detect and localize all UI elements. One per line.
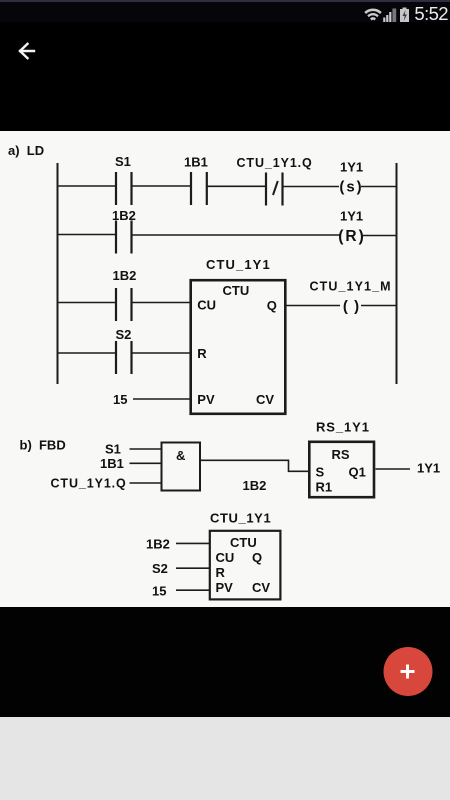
wire rung1 d — [361, 186, 397, 188]
svg-text:Q: Q — [252, 550, 262, 565]
status bar — [0, 0, 450, 22]
svg-text:b) FBD: b) FBD — [20, 438, 66, 453]
contact CTU_1Y1.Q (NC) — [266, 173, 283, 206]
RS block RS_1Y1 — [309, 420, 374, 498]
svg-text:1B1: 1B1 — [184, 155, 208, 170]
counter block CTU_1Y1 (LD) — [191, 257, 286, 414]
svg-text:CV: CV — [252, 580, 270, 595]
back arrow — [20, 44, 34, 58]
svg-text:R1: R1 — [316, 480, 333, 495]
svg-text:CTU_1Y1_M: CTU_1Y1_M — [310, 280, 392, 294]
wifi icon — [362, 10, 384, 32]
contact 1B2 rung3 — [116, 288, 132, 321]
wire AND output — [201, 460, 309, 471]
svg-text:RS: RS — [332, 447, 350, 462]
contact 1B2 rung2 — [116, 221, 132, 254]
svg-text:15: 15 — [113, 392, 127, 407]
svg-text:1B2: 1B2 — [243, 478, 267, 493]
app bar — [0, 22, 450, 131]
wire 1B1 to AND — [130, 462, 162, 464]
svg-text:15: 15 — [152, 584, 166, 599]
svg-text:CU: CU — [216, 550, 235, 565]
wire coil to rail — [361, 305, 397, 307]
svg-text:CTU_1Y1: CTU_1Y1 — [210, 511, 271, 526]
wire 15 to PV — [176, 589, 209, 591]
svg-text:CTU: CTU — [230, 535, 257, 550]
wire rung4 a — [132, 352, 192, 354]
wire rung3 left — [57, 302, 116, 304]
svg-text:S2: S2 — [152, 561, 168, 576]
wire rung2 b — [362, 235, 397, 237]
svg-text:( ): ( ) — [343, 298, 360, 315]
svg-text:a) LD: a) LD — [8, 143, 44, 158]
svg-text:S2: S2 — [116, 327, 132, 342]
svg-text:R: R — [216, 565, 226, 580]
battery icon — [400, 8, 409, 23]
right power rail — [396, 163, 398, 384]
svg-text:PV: PV — [197, 392, 215, 407]
svg-text:RS_1Y1: RS_1Y1 — [316, 420, 370, 435]
left power rail — [57, 163, 59, 384]
contact S1 — [116, 172, 132, 205]
svg-text:Q: Q — [267, 298, 277, 313]
svg-text:CTU_1Y1: CTU_1Y1 — [206, 257, 271, 272]
FAB button — [384, 647, 433, 696]
wire 1B2 to CU — [176, 542, 209, 544]
svg-text:1Y1: 1Y1 — [417, 461, 440, 476]
wire rung4 left — [57, 352, 116, 354]
svg-text:S1: S1 — [115, 154, 131, 169]
svg-text:1Y1: 1Y1 — [340, 160, 363, 175]
svg-text:&: & — [176, 448, 185, 463]
svg-text:CTU_1Y1.Q: CTU_1Y1.Q — [51, 477, 127, 491]
wire rung1 c — [283, 186, 340, 188]
svg-text:1B1: 1B1 — [100, 456, 124, 471]
wire rung1 a — [132, 185, 192, 187]
wire Q1 output — [376, 468, 411, 470]
svg-text:CV: CV — [256, 392, 274, 407]
signal icon — [383, 9, 396, 23]
svg-text:S1: S1 — [105, 442, 121, 457]
svg-text:1B2: 1B2 — [113, 268, 137, 283]
counter block CTU (FBD) — [210, 531, 281, 600]
svg-text:CU: CU — [197, 298, 216, 313]
svg-text:CTU_1Y1.Q: CTU_1Y1.Q — [237, 156, 313, 170]
svg-text:R: R — [197, 346, 207, 361]
diagram content — [0, 131, 450, 607]
svg-text:(R): (R) — [338, 228, 366, 245]
wire Q to AND — [130, 482, 162, 484]
bottom black panel — [0, 607, 450, 717]
wire rung3 a — [132, 302, 192, 304]
svg-text:S: S — [316, 465, 325, 480]
wire rung1 b — [207, 185, 266, 187]
clock 5:52 — [414, 3, 448, 25]
wire PV input — [133, 398, 191, 400]
svg-text:1B2: 1B2 — [146, 537, 170, 552]
contact S2 — [116, 341, 132, 374]
bottom gray panel — [0, 717, 450, 800]
svg-text:PV: PV — [216, 580, 234, 595]
wire Q output — [286, 305, 340, 307]
svg-text:Q1: Q1 — [349, 465, 366, 480]
wire S1 to AND — [130, 448, 162, 450]
wire rung2 left — [57, 234, 116, 236]
contact 1B1 — [191, 172, 207, 205]
svg-text:1Y1: 1Y1 — [340, 209, 363, 224]
AND gate block — [162, 443, 201, 491]
svg-text:(s): (s) — [339, 179, 363, 196]
wire rung2 a — [132, 234, 341, 236]
svg-text:CTU: CTU — [223, 283, 250, 298]
wire rung1 left — [57, 185, 116, 187]
wire S2 to R — [176, 567, 209, 569]
